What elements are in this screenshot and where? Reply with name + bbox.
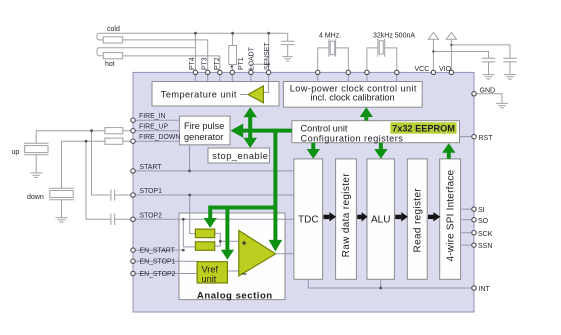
svg-text:Read register: Read register: [413, 188, 424, 253]
svg-text:PT4: PT4: [189, 57, 196, 70]
svg-text:Analog section: Analog section: [197, 290, 273, 301]
svg-text:FIRE_UP: FIRE_UP: [139, 124, 169, 131]
svg-text:VIO: VIO: [439, 66, 452, 73]
svg-text:unit: unit: [202, 274, 217, 284]
svg-text:Vref: Vref: [202, 264, 219, 274]
svg-text:Temperature unit: Temperature unit: [161, 90, 237, 100]
svg-text:generator: generator: [184, 132, 223, 142]
svg-text:32kHz 500nA: 32kHz 500nA: [373, 33, 415, 40]
svg-text:SI: SI: [478, 207, 485, 214]
svg-text:STOP1: STOP1: [140, 188, 163, 195]
svg-text:FIRE_DOWN: FIRE_DOWN: [139, 134, 180, 141]
svg-text:+: +: [242, 238, 247, 248]
svg-text:Control unit: Control unit: [301, 124, 348, 134]
svg-text:EN_STOP2: EN_STOP2: [140, 271, 176, 278]
svg-text:TDC: TDC: [298, 214, 319, 225]
svg-text:up: up: [12, 149, 20, 156]
svg-text:7x32 EEPROM: 7x32 EEPROM: [392, 124, 455, 134]
svg-text:Raw data register: Raw data register: [341, 173, 352, 258]
svg-text:4 MHz.: 4 MHz.: [319, 33, 341, 40]
svg-text:Fire pulse: Fire pulse: [184, 121, 224, 131]
svg-text:incl. clock calibration: incl. clock calibration: [310, 93, 394, 103]
svg-text:SENSET: SENSET: [264, 42, 271, 70]
svg-text:stop_enable: stop_enable: [212, 151, 268, 161]
svg-text:ALU: ALU: [371, 214, 390, 225]
svg-text:down: down: [27, 194, 44, 201]
svg-text:PT3: PT3: [201, 57, 208, 70]
svg-text:cold: cold: [107, 26, 120, 33]
svg-text:INT: INT: [479, 286, 491, 293]
svg-text:LOADT: LOADT: [249, 46, 256, 70]
svg-text:SSN: SSN: [478, 243, 492, 250]
svg-text:−: −: [242, 269, 247, 279]
svg-text:EN_STOP1: EN_STOP1: [140, 259, 176, 266]
svg-text:START: START: [140, 164, 163, 171]
svg-text:Configuration registers: Configuration registers: [301, 133, 404, 143]
svg-text:PT2: PT2: [214, 57, 221, 70]
svg-text:+: +: [230, 64, 234, 71]
svg-text:PT1: PT1: [238, 57, 245, 70]
svg-text:GND: GND: [480, 87, 496, 94]
svg-text:STOP2: STOP2: [140, 212, 163, 219]
svg-text:RST: RST: [479, 135, 494, 142]
svg-text:4-wire SPI Interface: 4-wire SPI Interface: [445, 169, 456, 261]
svg-text:VCC: VCC: [415, 66, 430, 73]
svg-text:SO: SO: [478, 218, 489, 225]
svg-text:EN_START: EN_START: [140, 247, 176, 254]
svg-text:hot: hot: [105, 61, 115, 68]
svg-text:FIRE_IN: FIRE_IN: [139, 113, 165, 120]
svg-text:SCK: SCK: [478, 231, 493, 238]
